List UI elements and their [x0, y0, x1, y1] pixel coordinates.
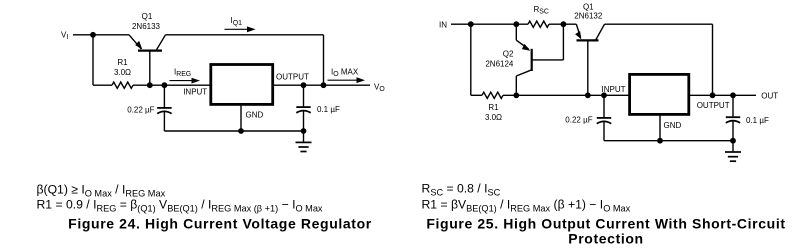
svg-text:VO: VO [374, 83, 385, 94]
svg-text:GND: GND [664, 121, 682, 130]
svg-text:OUT: OUT [761, 91, 778, 100]
svg-text:Protection: Protection [568, 231, 643, 247]
svg-text:IREG: IREG [174, 68, 191, 79]
svg-text:IN: IN [439, 21, 447, 30]
svg-text:β(Q1) ≥ IO Max / IREG Max: β(Q1) ≥ IO Max / IREG Max [37, 183, 166, 199]
svg-text:INPUT: INPUT [183, 87, 207, 96]
svg-text:RSC: RSC [534, 5, 549, 16]
svg-text:0.1 µF: 0.1 µF [746, 116, 769, 125]
svg-text:Figure 25. High Output Current: Figure 25. High Output Current With Shor… [426, 216, 785, 232]
svg-text:R1 = βVBE(Q1) / IREG Max (β +1: R1 = βVBE(Q1) / IREG Max (β +1) − IO Max [422, 198, 631, 214]
svg-text:R1 = 0.9 / IREG = β(Q1) VBE(Q1: R1 = 0.9 / IREG = β(Q1) VBE(Q1) / IREG M… [37, 198, 323, 214]
svg-text:VI: VI [61, 31, 68, 42]
svg-text:0.1 µF: 0.1 µF [317, 105, 340, 114]
svg-text:IO MAX: IO MAX [331, 68, 359, 79]
svg-text:GND: GND [246, 110, 264, 119]
svg-text:Figure 24. High Current Voltag: Figure 24. High Current Voltage Regulato… [68, 216, 372, 232]
svg-text:3.0Ω: 3.0Ω [485, 113, 502, 122]
svg-text:0.22 µF: 0.22 µF [127, 106, 154, 115]
svg-text:INPUT: INPUT [602, 85, 626, 94]
svg-text:R1: R1 [488, 103, 499, 112]
svg-text:Q2: Q2 [503, 49, 514, 58]
svg-text:R1: R1 [117, 58, 128, 67]
svg-text:3.0Ω: 3.0Ω [114, 68, 131, 77]
svg-text:Q1: Q1 [142, 12, 153, 21]
svg-text:IQ1: IQ1 [231, 16, 243, 27]
svg-text:OUTPUT: OUTPUT [276, 72, 309, 81]
svg-text:RSC = 0.8 / ISC: RSC = 0.8 / ISC [422, 182, 501, 198]
svg-text:0.22 µF: 0.22 µF [565, 116, 592, 125]
svg-text:2N6133: 2N6133 [132, 22, 161, 31]
svg-text:OUTPUT: OUTPUT [697, 101, 730, 110]
svg-text:2N6132: 2N6132 [574, 11, 603, 20]
svg-text:2N6124: 2N6124 [485, 59, 514, 68]
